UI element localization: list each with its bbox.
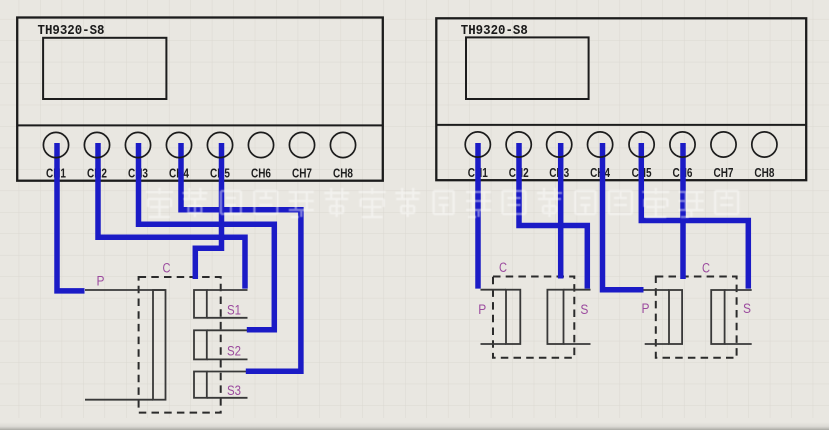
wire CH2-L to S1 bbox=[98, 143, 245, 289]
panel A channel CH8 terminal bbox=[330, 132, 355, 157]
T1 primary winding bbox=[153, 290, 166, 400]
svg-text:S3: S3 bbox=[227, 383, 241, 398]
T3 secondary winding bbox=[711, 290, 724, 344]
T1 S3 top lead bbox=[207, 371, 248, 373]
panel B divider line bbox=[436, 124, 806, 126]
wire CH4-L to S3 bbox=[181, 143, 301, 371]
wire CH5-L to core C bbox=[195, 143, 221, 279]
T2 primary winding bbox=[506, 290, 520, 344]
T1 secondary winding S2 bbox=[194, 330, 207, 359]
T3 primary bottom lead bbox=[645, 343, 669, 345]
T1 primary top lead bbox=[85, 289, 166, 291]
T1 S2 bottom lead bbox=[207, 358, 248, 360]
watermark company text (semi-transparent) bbox=[146, 188, 738, 217]
transformer T1 shield box (dashed) bbox=[139, 277, 221, 413]
T1 secondary winding S3 bbox=[194, 372, 207, 398]
panel B channel CH6 terminal bbox=[670, 132, 695, 157]
T1 secondary winding S1 bbox=[194, 290, 207, 318]
svg-text:P: P bbox=[642, 301, 650, 316]
T2 secondary top lead bbox=[564, 289, 591, 291]
panel B channel CH4 terminal bbox=[588, 132, 613, 157]
panel B channel CH1 terminal bbox=[465, 132, 490, 157]
svg-text:TH9320-S8: TH9320-S8 bbox=[461, 23, 528, 39]
panel B display window bbox=[466, 37, 589, 99]
panel A channel CH3 terminal bbox=[125, 132, 150, 157]
T1 S2 top lead bbox=[207, 329, 248, 331]
wire CH1-R to P of T2 bbox=[475, 143, 481, 289]
panel A display window bbox=[43, 38, 166, 99]
panel B channel CH2 terminal bbox=[506, 132, 531, 157]
T1 primary bottom lead bbox=[85, 399, 153, 401]
svg-text:CH7: CH7 bbox=[292, 167, 312, 181]
svg-text:CH7: CH7 bbox=[714, 166, 734, 180]
svg-text:S2: S2 bbox=[227, 344, 241, 359]
panel A channel CH2 terminal bbox=[84, 132, 109, 157]
panel B channel CH5 terminal bbox=[629, 132, 654, 157]
T2 secondary winding bbox=[547, 290, 563, 344]
T2 primary bottom lead bbox=[481, 343, 507, 345]
T1 S1 top lead bbox=[207, 289, 248, 291]
svg-text:C: C bbox=[702, 261, 710, 276]
instrument panel A outline bbox=[17, 18, 383, 181]
panel A channel CH7 terminal bbox=[289, 132, 314, 157]
transformer T2 shield box (dashed) bbox=[493, 277, 574, 358]
T3 secondary bottom lead bbox=[725, 343, 752, 345]
T1 S1 bottom lead bbox=[207, 317, 248, 319]
panel A channel CH1 terminal bbox=[43, 132, 68, 157]
T2 secondary bottom lead bbox=[564, 343, 591, 345]
panel A channel CH5 terminal bbox=[207, 132, 232, 157]
wire CH3-L to S2 bbox=[139, 143, 275, 330]
svg-text:C: C bbox=[163, 261, 171, 276]
svg-text:S: S bbox=[580, 302, 588, 317]
panel B channel CH8 terminal bbox=[752, 132, 777, 157]
svg-text:S1: S1 bbox=[227, 303, 241, 318]
svg-text:CH6: CH6 bbox=[251, 167, 271, 181]
transformer T3 shield box (dashed) bbox=[656, 277, 737, 358]
instrument panel B outline bbox=[436, 18, 806, 180]
T1 S3 bottom lead bbox=[207, 397, 248, 399]
T3 secondary top lead bbox=[725, 289, 752, 291]
bottom photo shade bbox=[0, 422, 829, 430]
svg-text:S: S bbox=[743, 301, 751, 316]
T2 primary top lead bbox=[481, 289, 507, 291]
T3 primary top lead bbox=[643, 289, 669, 291]
wire CH2-R to S of T2 bbox=[519, 143, 587, 289]
svg-text:CH8: CH8 bbox=[754, 166, 774, 180]
panel A channel CH6 terminal bbox=[248, 132, 273, 157]
svg-text:TH9320-S8: TH9320-S8 bbox=[38, 23, 105, 39]
wire CH6-R to core C of T3 bbox=[680, 143, 686, 279]
wire CH4-R to P of T3 bbox=[603, 143, 644, 290]
svg-text:C: C bbox=[499, 260, 507, 275]
T3 primary winding bbox=[669, 290, 682, 344]
panel A divider line bbox=[17, 124, 383, 126]
panel B channel CH7 terminal bbox=[711, 132, 736, 157]
panel A channel CH4 terminal bbox=[166, 132, 191, 157]
wire CH5-R to S of T3 bbox=[641, 143, 748, 289]
svg-text:P: P bbox=[97, 274, 105, 289]
svg-text:CH8: CH8 bbox=[333, 167, 353, 181]
wire CH3-R to core C of T2 bbox=[558, 143, 564, 279]
panel B channel CH3 terminal bbox=[547, 132, 572, 157]
svg-text:P: P bbox=[478, 302, 486, 317]
wire CH1-L to P primary bbox=[57, 143, 85, 291]
